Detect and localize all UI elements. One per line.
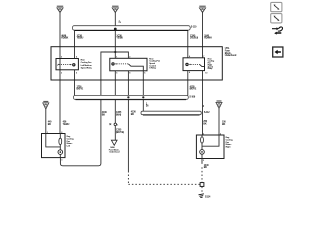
- svg-text:BK: BK: [203, 124, 207, 126]
- junction dot W2 at node y52: [114, 51, 116, 53]
- svg-text:1: 1: [117, 124, 118, 126]
- relay K2 speed control relay box: [110, 58, 147, 71]
- relay K1 label: [81, 59, 93, 70]
- left cooling fan motor box: [42, 134, 66, 158]
- svg-text:C8: C8: [119, 22, 121, 24]
- wire W2 fuse2 down to relay K2 pin 1: [114, 12, 116, 58]
- svg-text:3: 3: [61, 159, 63, 161]
- svg-text:YE/BU: YE/BU: [116, 38, 123, 40]
- svg-text:S Relay: S Relay: [149, 68, 157, 70]
- right cooling fan motor box: [196, 135, 224, 159]
- svg-text:3: 3: [61, 72, 63, 74]
- svg-text:Underhood: Underhood: [109, 151, 120, 154]
- svg-text:(WH): (WH): [116, 114, 121, 116]
- junction dots on bus2: [127, 96, 129, 98]
- wire W10 relay K2 pin6 to bus3: [142, 71, 144, 111]
- relay K3 label: [208, 59, 215, 70]
- svg-text:Left Medium: Left Medium: [81, 64, 92, 67]
- svg-text:2: 2: [203, 106, 205, 108]
- toolbar icon expand: [271, 14, 282, 23]
- svg-text:Underhood: Underhood: [225, 55, 237, 57]
- fuse B+ symbol F2 top-middle: [112, 6, 118, 13]
- wire W4a bus1 left to relay K1 pin4: [74, 30, 76, 59]
- svg-text:BK: BK: [222, 124, 226, 126]
- underhood fuse block outer box: [51, 47, 222, 80]
- right motor label: [226, 137, 234, 148]
- relay K1 contact: [57, 63, 75, 66]
- wire W9 relay K2 to ground dashed: [127, 71, 129, 171]
- motor M left: [58, 150, 63, 155]
- svg-text:YE/BU: YE/BU: [63, 124, 70, 126]
- wire W5b relay K3 to bus2 right: [187, 71, 189, 96]
- relay K1 cooling fan left relay box: [56, 59, 78, 70]
- ground G114 symbol: [199, 194, 204, 198]
- inline connector on W8: [109, 123, 116, 126]
- svg-text:RD/WH: RD/WH: [204, 38, 212, 40]
- wire dashed horizontal to ground splice: [128, 183, 200, 185]
- svg-text:BK/YE: BK/YE: [190, 89, 197, 91]
- svg-text:BK: BK: [48, 124, 52, 126]
- svg-text:8: 8: [189, 72, 191, 74]
- wire W11 right motor to ground: [201, 159, 203, 164]
- svg-text:G114: G114: [205, 195, 211, 198]
- svg-text:S-112: S-112: [204, 112, 210, 114]
- bus S-bar 3: [141, 111, 201, 115]
- bus S-bar 1: [72, 26, 190, 31]
- svg-text:3: 3: [203, 160, 205, 162]
- wire W3b relay K3 to right fan motor: [202, 71, 204, 135]
- relay K2 label: [149, 57, 161, 69]
- fuse B+ symbol F3 top-right: [199, 6, 205, 13]
- svg-text:(BK/YE): (BK/YE): [116, 132, 124, 134]
- wire W4b relay K1 pin5 to bus2: [74, 70, 76, 96]
- svg-text:5: 5: [76, 72, 78, 74]
- resistor left fan: [59, 138, 62, 144]
- svg-text:8: 8: [129, 73, 131, 75]
- svg-text:BK: BK: [102, 114, 106, 116]
- svg-text:BK: BK: [131, 114, 135, 116]
- fuse B+ symbol F1 top-left: [57, 6, 63, 13]
- relay K3 contact: [185, 63, 204, 67]
- ground splice square: [200, 183, 204, 187]
- junction dot fuse2 on bus1: [114, 28, 117, 31]
- svg-text:S-110: S-110: [191, 27, 197, 29]
- svg-text:S-109: S-109: [189, 97, 195, 99]
- arrow terminal S206: [111, 140, 117, 145]
- svg-text:(YE/BU): (YE/BU): [190, 38, 198, 40]
- svg-text:Rear: Rear: [81, 59, 85, 62]
- svg-text:RD/BK: RD/BK: [61, 38, 68, 40]
- motor M right: [200, 150, 205, 155]
- wire W12 B+ right to right motor: [218, 109, 220, 135]
- svg-text:10: 10: [205, 73, 208, 75]
- svg-text:36: 36: [146, 106, 149, 108]
- toolbar icon route arrows: [272, 27, 283, 35]
- B+ symbol right middle: [216, 100, 222, 108]
- svg-text:Relay: Relay: [208, 68, 214, 70]
- svg-text:6: 6: [144, 73, 146, 75]
- svg-text:YE/BU: YE/BU: [77, 38, 84, 40]
- pin numbers: [47, 55, 222, 162]
- svg-text:BK/YE: BK/YE: [77, 89, 84, 91]
- relay K3 cooling fan right relay box: [183, 58, 205, 71]
- resistor right fan: [201, 137, 204, 143]
- svg-text:5: 5: [116, 73, 118, 75]
- toolbar icon back: [273, 47, 283, 57]
- wire W1 fuse1 to left fan motor: [59, 12, 61, 133]
- wire W5a bus1 right to relay K3 pin: [187, 30, 189, 58]
- wire W7 B+ symbol to left motor: [45, 109, 47, 133]
- svg-text:Right: Right: [226, 145, 231, 148]
- bus S-bar 2: [73, 95, 188, 99]
- wire W8 relay K2 pin to S206 arrow: [114, 71, 116, 140]
- svg-text:BK: BK: [204, 167, 208, 169]
- relay K2 contact: [111, 62, 143, 71]
- wire W6 junction to left motor return: [60, 52, 128, 166]
- B+ symbol left middle: [43, 101, 49, 109]
- svg-text:Left: Left: [67, 144, 71, 147]
- left motor label: [67, 136, 75, 147]
- toolbar icon shrink: [271, 2, 282, 11]
- wire W3 fuse3 down to relay K3: [202, 12, 204, 57]
- svg-text:Speed Relay: Speed Relay: [81, 67, 93, 69]
